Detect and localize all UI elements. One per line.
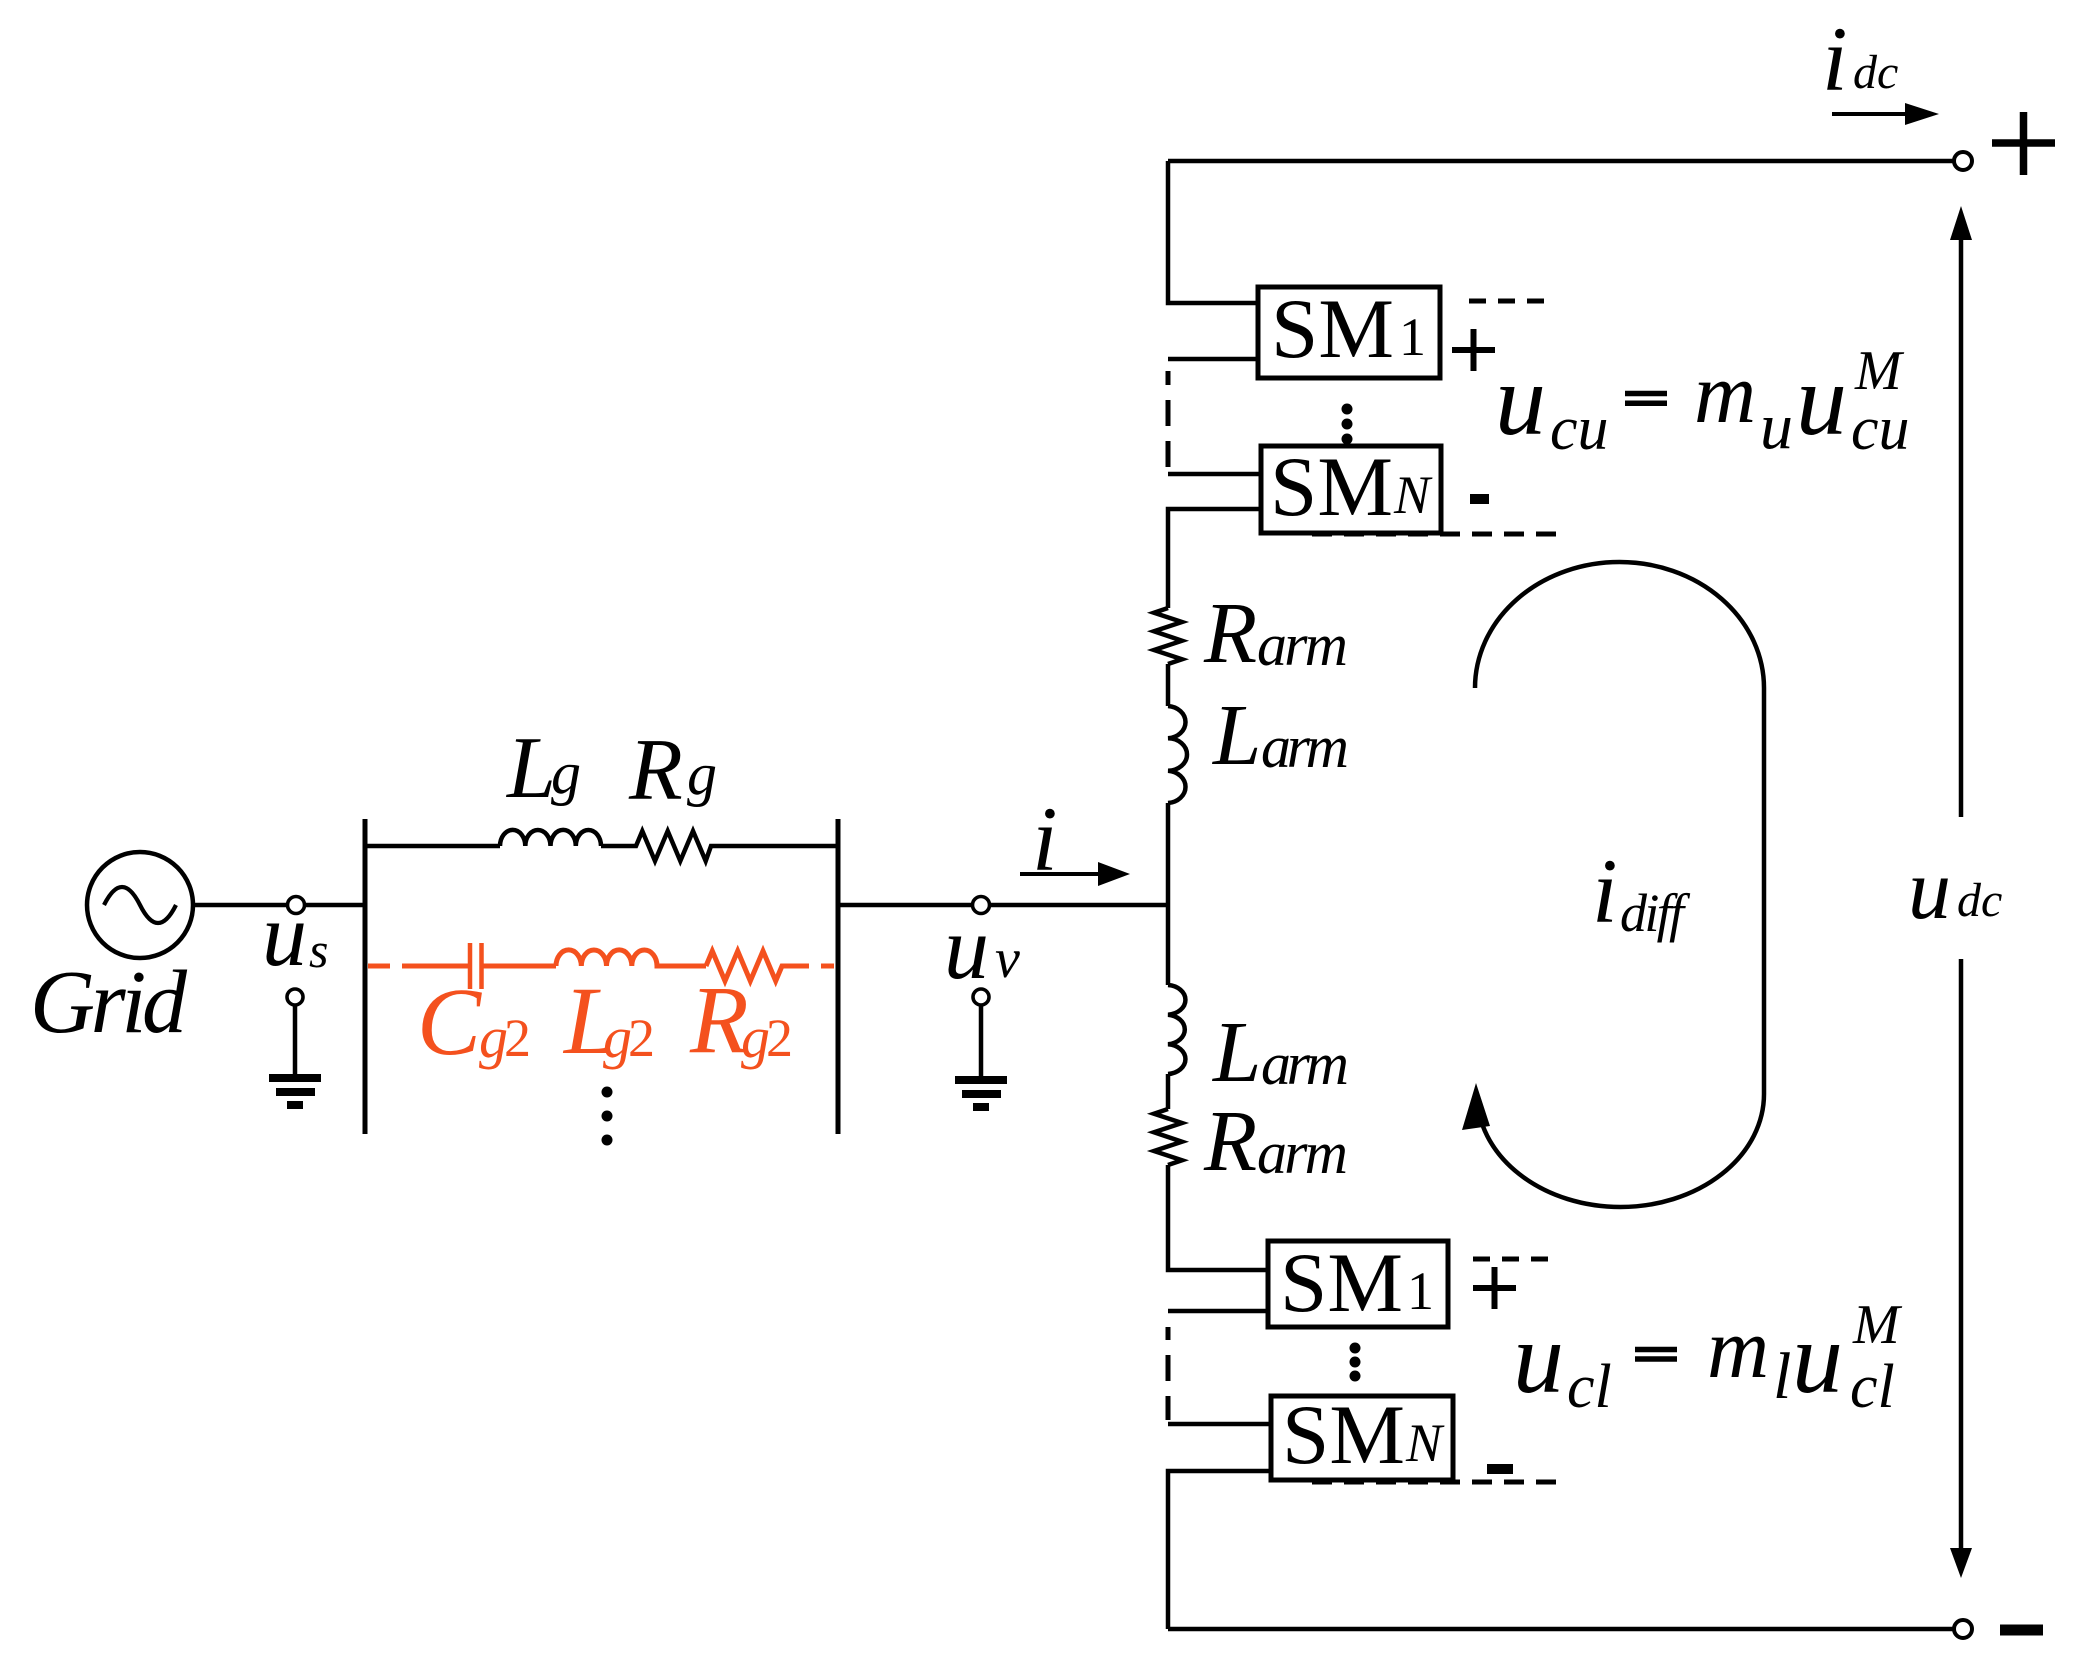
svg-text:Grid: Grid — [30, 953, 188, 1052]
dashed link SM1 to SMN lower — [1166, 1327, 1171, 1420]
resistor Rarm upper — [1154, 608, 1182, 664]
ellipsis lower SM chain — [1350, 1343, 1361, 1382]
capacitor Cg2 — [470, 943, 556, 989]
u_cl polarity dashed line top — [1473, 1257, 1558, 1262]
ellipsis below harmonic branches — [602, 1087, 613, 1146]
node us terminal — [288, 897, 305, 914]
svg-text:Larm: Larm — [1211, 686, 1349, 783]
wire SMN lower bottom-terminal down to bottom rail — [1168, 1471, 1271, 1629]
inductor Larm upper — [1168, 706, 1187, 803]
wire to SMN lower — [1168, 1422, 1271, 1427]
ground at uv — [955, 989, 1007, 1107]
bus bar left — [363, 819, 368, 1134]
arm voltage formula u_cl = m_l u_cl^M — [1635, 1350, 1677, 1360]
svg-text:udc: udc — [1908, 841, 2002, 937]
svg-text:ucu mu u M cu: ucu mu u M cu — [1495, 340, 1910, 463]
plus label (dc+) — [1992, 112, 2055, 175]
wire SM1 upper lower-terminal — [1168, 357, 1258, 362]
u_cl minus sign — [1487, 1464, 1513, 1474]
dashed link SM1 to SMN upper — [1166, 371, 1171, 467]
top DC rail — [1168, 159, 1954, 164]
resistor Rg — [601, 831, 838, 861]
svg-text:Rarm: Rarm — [1203, 584, 1348, 681]
submodule SM1 lower box — [1268, 1241, 1448, 1327]
svg-text:Larm: Larm — [1211, 1003, 1349, 1100]
wire resistor to inductor upper — [1166, 664, 1171, 706]
harmonic branch (orange): dashes left — [368, 964, 470, 969]
wire source to node us — [193, 903, 365, 908]
resistor Rg2 — [706, 951, 834, 981]
bus bar right — [836, 819, 841, 1134]
wire bus to inductor Lg — [365, 844, 500, 849]
u_cu minus sign — [1470, 494, 1489, 504]
wire SMN upper bottom-terminal down to Rarm — [1168, 509, 1261, 608]
svg-text:uv: uv — [944, 899, 1020, 998]
udc measurement arrow (double headed) — [1950, 206, 1972, 1578]
resistor Rarm lower — [1154, 1109, 1182, 1165]
arm voltage formula u_cu = m_u u_cu^M — [1625, 394, 1667, 404]
u_cu polarity dashed line top — [1469, 299, 1556, 304]
svg-text:Cg2: Cg2 — [417, 968, 531, 1075]
negative terminal — [1954, 1620, 1972, 1638]
wire bus to node uv and to arm — [838, 903, 1168, 908]
svg-text:Rg: Rg — [628, 722, 717, 819]
wire to SMN upper — [1168, 472, 1261, 477]
wire SM1 lower bottom-terminal — [1168, 1309, 1268, 1314]
wire Larm through junction down to Larm lower — [1166, 803, 1171, 985]
inductor Lg2 — [556, 950, 706, 966]
ellipsis upper SM chain — [1342, 404, 1353, 445]
wire inductor to resistor lower — [1166, 1074, 1171, 1109]
circulating current idiff loop — [1462, 562, 1764, 1207]
u_cu plus sign — [1452, 329, 1495, 371]
u_cu polarity dashed line bottom — [1312, 532, 1556, 537]
phase current i arrow — [1020, 862, 1130, 886]
u_cl plus sign — [1473, 1267, 1516, 1309]
submodule SMN lower box — [1271, 1396, 1453, 1480]
svg-text:idiff: idiff — [1592, 840, 1691, 943]
submodule SMN upper box — [1261, 446, 1441, 533]
svg-text:us: us — [262, 886, 328, 985]
svg-text:Rarm: Rarm — [1203, 1092, 1348, 1189]
wire down to SM1 lower — [1168, 1165, 1268, 1270]
u_cl polarity dashed line bottom — [1312, 1480, 1560, 1485]
idc arrow — [1832, 103, 1939, 125]
minus label (dc-) — [2000, 1625, 2043, 1636]
inductor Larm lower — [1168, 985, 1185, 1074]
submodule SM1 upper box — [1258, 287, 1440, 378]
ground at us — [269, 989, 321, 1105]
svg-text:Lg: Lg — [505, 720, 581, 817]
svg-text:Lg2: Lg2 — [562, 967, 655, 1074]
AC source V1 (Grid) — [87, 852, 193, 958]
svg-text:ucl ml u M cl: ucl ml u M cl — [1513, 1294, 1904, 1421]
positive terminal — [1954, 152, 1972, 170]
node uv terminal — [973, 897, 990, 914]
svg-text:idc: idc — [1822, 8, 1898, 110]
bottom DC rail — [1168, 1627, 1954, 1632]
inductor Lg — [500, 830, 601, 846]
wire rail down to SM1 upper — [1168, 161, 1258, 303]
